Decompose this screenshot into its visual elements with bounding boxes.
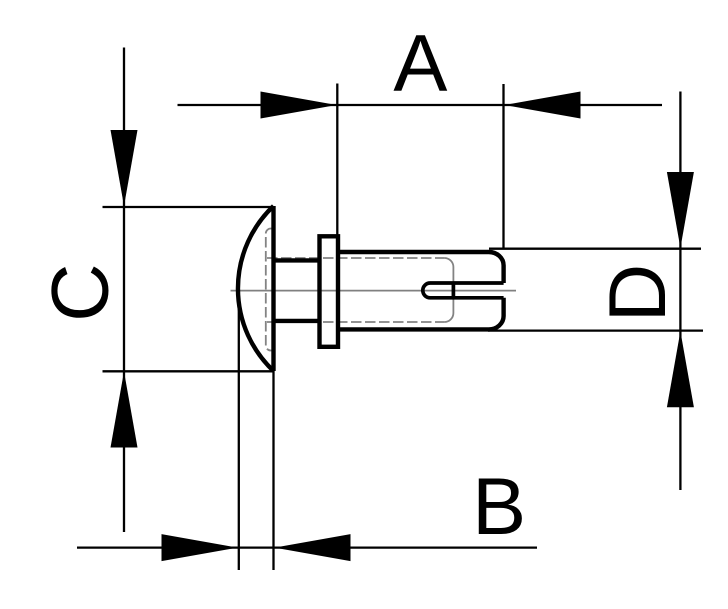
hidden pin shaft right end <box>444 258 453 322</box>
hidden pin shaft top <box>267 257 444 259</box>
arrowhead B right <box>275 534 351 561</box>
wire: extension line C bottom <box>103 370 274 372</box>
barrel bottom outline <box>338 298 504 330</box>
arrowhead C top <box>111 130 138 206</box>
hidden pin disc behind head <box>266 229 274 351</box>
flange <box>320 236 339 346</box>
hidden pin shaft bottom <box>267 321 444 323</box>
wire: extension line B left <box>238 291 240 571</box>
arrowhead D top <box>667 172 694 248</box>
svg-text:B: B <box>472 462 526 552</box>
pin edge visible through slot <box>452 283 456 298</box>
wire: extension line A right <box>502 84 504 249</box>
wire: extension line D top <box>489 248 701 250</box>
wire: extension line D bottom <box>488 329 703 331</box>
wire: extension line B right <box>272 371 274 570</box>
arrowhead B left <box>162 534 238 561</box>
svg-text:D: D <box>593 264 683 323</box>
arrowhead C bottom <box>111 372 138 448</box>
wire: extension line C top <box>103 206 274 208</box>
slot in barrel <box>423 283 504 298</box>
wire: dimension line D vertical <box>679 92 681 491</box>
svg-text:C: C <box>36 263 126 322</box>
wire: dimension line A <box>178 104 663 106</box>
neck top line <box>274 258 320 262</box>
arrowhead A right <box>505 92 581 119</box>
centerline <box>231 290 517 292</box>
wire: dimension line C vertical <box>123 48 125 533</box>
arrowhead A left <box>261 92 337 119</box>
wire: dimension line B <box>77 546 537 548</box>
arrowhead D bottom <box>667 331 694 407</box>
svg-text:A: A <box>393 19 447 109</box>
wire: extension line A left <box>336 84 338 237</box>
neck bottom line <box>274 319 320 323</box>
head rear face <box>271 206 275 371</box>
head dome arc <box>238 206 274 371</box>
barrel top outline <box>338 252 504 283</box>
